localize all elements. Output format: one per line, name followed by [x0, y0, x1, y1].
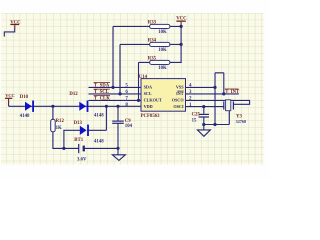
- svg-text:D10: D10: [20, 95, 29, 100]
- svg-text:R33: R33: [148, 20, 157, 25]
- svg-text:D13: D13: [74, 121, 83, 126]
- svg-text:R12: R12: [56, 119, 65, 124]
- svg-text:VSS: VSS: [176, 84, 184, 89]
- svg-text:D12: D12: [69, 92, 78, 97]
- svg-text:PCF8563: PCF8563: [141, 114, 161, 119]
- svg-text:3.6V: 3.6V: [77, 157, 87, 162]
- svg-text:OSCO: OSCO: [172, 97, 185, 102]
- svg-text:1K: 1K: [56, 126, 62, 131]
- svg-text:T_SCL: T_SCL: [94, 90, 109, 95]
- svg-text:CLKOUT: CLKOUT: [144, 97, 162, 102]
- svg-text:T_CLK: T_CLK: [94, 96, 110, 101]
- svg-text:R35: R35: [148, 56, 157, 61]
- svg-text:BT1: BT1: [74, 138, 83, 143]
- svg-text:10K: 10K: [158, 30, 167, 35]
- svg-text:10K: 10K: [158, 66, 167, 71]
- svg-text:U14: U14: [139, 75, 148, 80]
- svg-text:C25: C25: [192, 113, 201, 118]
- svg-text:INT: INT: [176, 91, 184, 96]
- svg-text:OSCI: OSCI: [173, 104, 184, 109]
- svg-text:SCL: SCL: [144, 91, 152, 96]
- svg-text:VDD: VDD: [144, 104, 153, 109]
- svg-text:10K: 10K: [158, 48, 167, 53]
- svg-text:SDA: SDA: [144, 84, 152, 89]
- svg-text:15: 15: [192, 118, 197, 123]
- svg-text:104: 104: [125, 124, 133, 129]
- svg-text:4148: 4148: [94, 114, 104, 119]
- svg-text:4148: 4148: [94, 139, 104, 144]
- svg-text:VCC: VCC: [176, 17, 187, 22]
- svg-text:32768: 32768: [236, 119, 246, 124]
- svg-text:T_SDA: T_SDA: [94, 83, 110, 88]
- svg-text:R34: R34: [148, 38, 157, 43]
- svg-text:4148: 4148: [20, 114, 30, 119]
- svg-text:VCC: VCC: [5, 93, 15, 98]
- svg-text:T_INT: T_INT: [225, 90, 240, 95]
- svg-text:VCC: VCC: [10, 20, 21, 25]
